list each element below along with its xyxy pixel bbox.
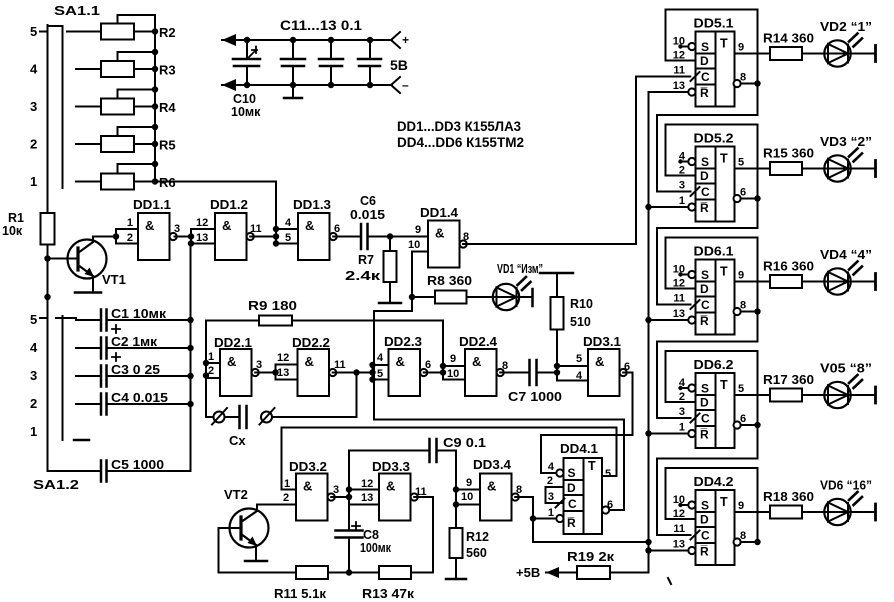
flip-flop DD4.2 body	[696, 490, 735, 565]
wire R19 to R bus	[610, 551, 649, 573]
gate DD2.3	[389, 349, 421, 396]
node DD2.1 pin1	[203, 360, 209, 366]
capacitor C10 (electrolytic)	[246, 40, 248, 59]
open contact position 1	[74, 439, 89, 442]
flip-flop DD5.2 body	[696, 147, 735, 222]
svg-text:T: T	[720, 495, 728, 509]
svg-text:11: 11	[250, 223, 262, 235]
node R7 top	[387, 233, 393, 239]
gate DD1.4	[428, 221, 460, 268]
LED VD6	[824, 499, 850, 525]
wire R8 to VD1	[467, 296, 493, 298]
DD2.3 input tie	[372, 365, 374, 380]
wire bus2 down to DD3.2	[282, 428, 297, 490]
capacitor C3	[100, 366, 103, 387]
svg-text:3: 3	[333, 484, 339, 496]
terminal Cx left	[214, 412, 225, 423]
wire DD3.1 out down to DD4.1 S	[541, 373, 633, 474]
gate DD3.1	[588, 349, 620, 396]
node DD5.1 Q-not	[754, 80, 760, 86]
terminal Cx right	[261, 412, 272, 423]
svg-text:&: &	[595, 354, 604, 369]
wire C2 to bus	[107, 347, 191, 349]
svg-text:T: T	[720, 152, 728, 166]
svg-text:D: D	[700, 169, 709, 183]
svg-text:R12: R12	[466, 530, 489, 544]
svg-text:VD1 “Изм”: VD1 “Изм”	[497, 262, 543, 276]
DD5.1 C slash	[691, 72, 700, 81]
svg-text:R17 360: R17 360	[763, 372, 814, 387]
ground of VT2	[245, 560, 267, 563]
resistor R3	[101, 61, 134, 77]
wire DD1.1 out to DD1.2 in	[175, 236, 192, 238]
svg-text:Сх: Сх	[229, 433, 246, 448]
DD4.2 R bubble	[688, 547, 695, 554]
DD1.3 input tie	[275, 229, 277, 244]
DD6.2 S stub	[680, 387, 689, 389]
svg-text:10мк: 10мк	[231, 105, 261, 119]
svg-text:3: 3	[679, 180, 685, 192]
DD6.2 R bubble	[688, 430, 695, 437]
wire C5 to bus	[107, 470, 191, 472]
svg-text:D: D	[700, 396, 709, 410]
wire contact to C2	[76, 347, 101, 349]
switch SA1.1 top bracket	[48, 25, 63, 27]
DD6.1 Q-not wire	[741, 311, 758, 313]
capacitor C11 with ground	[292, 40, 294, 59]
DD5.2 Q-not wire	[741, 198, 758, 200]
LED VD4	[824, 268, 850, 294]
DD5.2 S bubble	[688, 158, 695, 165]
svg-text:1: 1	[208, 351, 214, 363]
svg-text:12: 12	[277, 352, 289, 364]
node Cx riser	[353, 369, 359, 375]
DD2.2 input tie	[275, 365, 277, 380]
wire LED V05 to terminal	[851, 394, 875, 396]
wire R6 to bus	[134, 181, 155, 183]
capacitor C8	[336, 529, 363, 532]
resistor R6	[101, 174, 134, 190]
wire DD2.3 out to DD2.4	[424, 372, 443, 374]
wire Cx to DD2.2 output node	[272, 373, 357, 418]
node DD2.3 pin5	[369, 376, 375, 382]
resistor R4 trimmer tap	[118, 90, 156, 99]
wire Cx left	[206, 416, 214, 418]
terminal bar VD2	[874, 46, 877, 62]
node DD1.1 input	[113, 233, 119, 239]
node DD1.3 input upper	[273, 226, 279, 232]
DD5.1 S stub	[680, 46, 689, 48]
node C2 bus	[187, 345, 193, 351]
DD4.2 C slash	[691, 531, 700, 540]
node DD4.2 Q-not	[754, 539, 760, 545]
svg-text:VT2: VT2	[224, 487, 248, 502]
resistor R11	[296, 566, 328, 579]
svg-text:9: 9	[450, 353, 456, 365]
wire DD1.4 out to counter clock riser	[463, 243, 636, 245]
svg-text:R14 360: R14 360	[763, 31, 814, 46]
wire chain from previous stage to DD6.2 C input	[657, 312, 758, 419]
DD5.1 R bubble	[688, 88, 695, 95]
wire LED VD3 to terminal	[851, 168, 875, 170]
gate DD3.4	[480, 474, 512, 521]
resistor R8	[435, 291, 467, 304]
wire R12 to ground	[455, 558, 457, 578]
wire C1 to bus	[107, 319, 191, 321]
terminal bar VD1	[531, 289, 534, 306]
svg-text:D: D	[700, 54, 709, 68]
DD5.1 R wire from bus	[649, 91, 689, 93]
DD5.2 S stub	[680, 161, 689, 163]
svg-text:VD6 “16”: VD6 “16”	[820, 478, 872, 493]
node DD3.1 input top	[554, 363, 560, 369]
svg-text:11: 11	[673, 65, 685, 77]
svg-text:3: 3	[548, 491, 554, 503]
svg-text:8: 8	[516, 484, 522, 496]
svg-text:DD3.2: DD3.2	[289, 460, 327, 474]
svg-text:12: 12	[361, 478, 373, 490]
capacitor C13	[369, 40, 371, 59]
svg-text:510: 510	[570, 315, 591, 329]
svg-text:+5В: +5В	[516, 565, 540, 580]
svg-text:DD1.2: DD1.2	[210, 198, 248, 212]
wire chain from previous stage to DD6.1 C input	[657, 199, 758, 305]
svg-text:DD2.3: DD2.3	[384, 335, 422, 349]
VT2 base wire	[219, 528, 297, 573]
svg-text:4: 4	[30, 340, 38, 355]
svg-text:10: 10	[447, 368, 459, 380]
svg-text:5В: 5В	[390, 57, 408, 73]
resistor R6 trimmer tap	[118, 164, 156, 174]
svg-text:R16 360: R16 360	[763, 259, 814, 274]
wire contact to C3	[76, 375, 101, 377]
svg-text:T: T	[588, 459, 596, 473]
svg-text:R19 2к: R19 2к	[567, 549, 615, 564]
resistor R19	[577, 566, 610, 579]
svg-text:&: &	[145, 218, 154, 233]
svg-text:–: –	[402, 78, 409, 92]
svg-text:S: S	[701, 155, 709, 169]
svg-text:R3: R3	[159, 63, 176, 78]
svg-text:R̅: R̅	[700, 545, 709, 559]
svg-text:R10: R10	[570, 297, 593, 311]
DD5.1 S bubble	[688, 43, 695, 50]
resistor R14	[770, 47, 802, 60]
gate DD3.2	[296, 474, 328, 521]
DD3.1 input tie	[556, 366, 558, 381]
svg-text:2: 2	[30, 137, 37, 152]
arrow +5В	[546, 572, 577, 574]
svg-text:&: &	[396, 354, 405, 369]
node R bus DD5.2	[645, 204, 651, 210]
switch SA1.1 pole line A	[47, 25, 49, 213]
node DD1.3 input lower	[273, 240, 279, 246]
svg-text:C4 0.015: C4 0.015	[111, 391, 168, 405]
DD4.1 S bubble	[556, 469, 563, 476]
svg-text:11: 11	[673, 523, 685, 535]
ground of VT1	[75, 291, 101, 294]
LED VD2	[824, 40, 850, 66]
svg-text:3: 3	[679, 406, 685, 418]
transistor VT1	[68, 240, 107, 279]
wire clock riser DD1.4 to DD5.1 C	[636, 77, 690, 245]
svg-text:3: 3	[30, 368, 37, 383]
svg-text:S: S	[701, 499, 709, 513]
svg-text:1: 1	[679, 195, 685, 207]
svg-text:6: 6	[425, 359, 431, 371]
node R bus DD6.2	[645, 430, 651, 436]
node DD5.2 Q-not	[754, 195, 760, 201]
svg-text:4: 4	[30, 62, 38, 77]
wire contact 5 to R2	[76, 31, 101, 33]
DD4.2 Q output wire	[735, 511, 771, 513]
wire SA1.2 pole to C5	[48, 470, 102, 472]
DD1.1 input wires	[116, 228, 138, 230]
wire R-bus from DD3.4	[533, 519, 649, 543]
svg-text:6: 6	[624, 361, 630, 373]
DD4.1 Q wire	[602, 475, 617, 477]
node C4 bus	[187, 401, 193, 407]
resistor R4	[101, 99, 134, 115]
svg-text:&: &	[227, 354, 236, 369]
svg-text:R̅: R̅	[567, 516, 576, 530]
wire R14 to LED	[802, 53, 825, 55]
DD4.1 Q-not bubble	[602, 506, 609, 513]
svg-text:2: 2	[547, 475, 553, 487]
svg-text:R7: R7	[358, 253, 374, 267]
DD6.1 feedback loop Q-not to D	[666, 238, 758, 312]
arrow left top	[222, 34, 236, 46]
DD5.1 Q-not wire	[741, 83, 758, 85]
svg-text:R2: R2	[159, 25, 176, 40]
svg-text:4: 4	[285, 217, 292, 229]
arrow left bottom	[222, 79, 236, 91]
svg-text:T: T	[720, 378, 728, 392]
wire DD3.4 input to R12	[455, 505, 457, 529]
svg-text:10: 10	[673, 494, 685, 506]
svg-text:R8 360: R8 360	[427, 274, 472, 288]
svg-text:C: C	[568, 497, 577, 511]
DD4.2 S stub	[680, 504, 689, 506]
svg-text:VD3 “2”: VD3 “2”	[820, 134, 872, 149]
DD1.4 pin10 wire jog	[412, 252, 428, 312]
wire LED VD4 to terminal	[851, 281, 875, 283]
gate DD2.4	[465, 349, 497, 396]
flip-flop DD5.1 body	[696, 32, 735, 107]
wire C7 to DD3.1 input	[537, 372, 558, 374]
svg-text:9: 9	[466, 477, 472, 489]
svg-text:DD3.3: DD3.3	[372, 460, 410, 474]
gate DD3.3	[379, 474, 411, 521]
svg-text:SA1.2: SA1.2	[33, 477, 79, 492]
wire base node to VT1	[48, 258, 79, 260]
terminal - of 5V	[391, 77, 400, 93]
resistor R10	[556, 273, 558, 297]
capacitor C2	[100, 338, 103, 359]
svg-text:R̅: R̅	[700, 314, 709, 328]
svg-text:R̅: R̅	[700, 201, 709, 215]
wire R4 to bus	[134, 106, 155, 108]
resistor R5	[101, 136, 134, 152]
svg-text:R11 5.1к: R11 5.1к	[274, 586, 326, 601]
svg-text:C3 0 25: C3 0 25	[111, 363, 160, 377]
wire VD1 to terminal	[518, 296, 531, 298]
svg-text:10: 10	[461, 491, 473, 503]
DD4.2 feedback loop Q-not to D	[666, 468, 758, 542]
svg-text:&: &	[435, 226, 444, 241]
DD6.1 C slash	[691, 300, 700, 309]
svg-text:DD5.2: DD5.2	[694, 132, 734, 146]
switch SA1.2 pole line	[47, 297, 49, 471]
svg-text:3: 3	[30, 99, 37, 114]
svg-text:5: 5	[738, 383, 744, 395]
bus capacitors to DD1.2 input	[190, 244, 192, 472]
svg-text:2: 2	[208, 365, 214, 377]
svg-text:560: 560	[466, 546, 487, 560]
svg-text:4: 4	[679, 377, 686, 389]
svg-text:2.4к: 2.4к	[345, 269, 381, 283]
DD6.2 feedback loop Q-not to D	[666, 351, 758, 425]
wire R11 to R13	[328, 572, 379, 574]
node C3 bus	[187, 373, 193, 379]
wire R3 to bus	[134, 68, 155, 70]
wire C9 to DD3.4 input	[437, 451, 457, 505]
wire DD3.3 out to R13 riser	[414, 496, 433, 498]
svg-text:VT1: VT1	[102, 272, 126, 287]
svg-text:3: 3	[174, 223, 180, 235]
wire DD2.1 out to DD2.2	[255, 372, 275, 374]
svg-text:4: 4	[548, 461, 555, 473]
node base of VT1	[44, 255, 50, 261]
node SA1.2 top	[44, 294, 50, 300]
gate DD1.3	[298, 213, 330, 260]
wire C8 to R11 R13 node	[348, 538, 350, 573]
DD6.1 Q-not bubble	[734, 308, 741, 315]
node DD1.2 input lower	[188, 240, 194, 246]
svg-text:13: 13	[196, 232, 208, 244]
capacitor C1	[100, 310, 103, 331]
svg-text:&: &	[487, 479, 496, 494]
svg-text:13: 13	[673, 539, 685, 551]
DD3.3 input tie	[348, 490, 350, 505]
resistor R18	[770, 506, 802, 519]
capacitor Cx	[238, 406, 241, 428]
wire riser to C9 from DD3.3 input	[349, 451, 430, 490]
svg-text:S: S	[701, 40, 709, 54]
wire C4 to bus	[107, 403, 191, 405]
node DD3.3 input lower	[346, 494, 352, 500]
node R bus DD6.1	[645, 317, 651, 323]
svg-text:DD1...DD3 К155ЛА3: DD1...DD3 К155ЛА3	[397, 119, 521, 134]
wire R9 line left	[206, 321, 259, 418]
gate DD2.1	[220, 349, 252, 396]
svg-text:D: D	[700, 513, 709, 527]
svg-text:&: &	[305, 354, 314, 369]
svg-text:1: 1	[30, 424, 37, 439]
node DD6.2 Q-not	[754, 422, 760, 428]
capacitor C6	[360, 224, 363, 249]
svg-text:5: 5	[738, 157, 744, 169]
svg-text:10: 10	[408, 239, 420, 251]
plus mark of C1	[112, 325, 120, 333]
svg-text:DD4...DD6 К155ТМ2: DD4...DD6 К155ТМ2	[397, 135, 524, 150]
DD6.1 Q output wire	[735, 281, 771, 283]
plus mark of C8	[352, 522, 360, 530]
DD5.1 Q-not bubble	[734, 80, 741, 87]
resistor R13	[379, 566, 411, 579]
capacitor C4	[100, 394, 103, 415]
svg-text:C: C	[701, 529, 710, 543]
DD6.2 S bubble	[688, 384, 695, 391]
node DD2.3 input	[369, 369, 375, 375]
svg-text:T: T	[720, 265, 728, 279]
svg-text:DD3.1: DD3.1	[583, 335, 621, 349]
gate DD1.1	[138, 213, 170, 260]
wire R2 to bus	[134, 31, 155, 33]
svg-text:DD5.1: DD5.1	[694, 17, 734, 31]
svg-text:C: C	[701, 412, 710, 426]
node DD3.1 input	[554, 369, 560, 375]
svg-text:C11...13 0.1: C11...13 0.1	[280, 18, 363, 33]
wire contact 1 to R6	[76, 181, 101, 183]
svg-text:C1 10мк: C1 10мк	[111, 307, 167, 321]
wire node R6 to DD1.3 input (long)	[155, 182, 276, 230]
svg-text:12: 12	[196, 217, 208, 229]
svg-text:DD4.2: DD4.2	[694, 475, 734, 489]
svg-text:C5 1000: C5 1000	[111, 458, 164, 472]
svg-text:DD1.1: DD1.1	[133, 198, 171, 212]
resistor R10 pull-up bar	[540, 272, 573, 275]
svg-text:C7 1000: C7 1000	[508, 389, 562, 404]
svg-text:10: 10	[673, 36, 685, 48]
svg-text:DD2.4: DD2.4	[459, 335, 497, 349]
svg-text:1: 1	[284, 478, 290, 490]
wire R5 to bus	[134, 143, 155, 145]
node DD1.2 input upper	[188, 233, 194, 239]
LED VD1	[493, 284, 519, 310]
wire contact to C4	[76, 403, 101, 405]
svg-text:R18 360: R18 360	[763, 489, 814, 504]
flip-flop DD6.1 body	[696, 260, 735, 335]
VT2 emitter wire	[255, 545, 257, 560]
svg-text:4: 4	[679, 151, 686, 163]
svg-text:10к: 10к	[2, 224, 23, 238]
svg-text:D: D	[700, 282, 709, 296]
DD6.2 R wire from bus	[649, 433, 689, 435]
wire bus2 DD4.1 Q to DD3.2 pin1	[282, 428, 617, 477]
svg-text:1: 1	[679, 422, 685, 434]
DD5.1 Q output wire	[735, 53, 771, 55]
svg-text:D: D	[567, 481, 576, 495]
node DD4.1 R wire	[530, 515, 536, 521]
svg-text:10: 10	[673, 264, 685, 276]
DD5.2 R wire from bus	[649, 206, 689, 208]
VT1 emitter wire	[92, 276, 94, 292]
node DD3.4 pin10	[453, 501, 459, 507]
capacitor C5	[100, 461, 103, 482]
DD6.1 S stub	[680, 274, 689, 276]
DD6.2 Q-not wire	[741, 424, 758, 426]
DD5.1 feedback loop Q-not to D	[666, 10, 758, 84]
wire contact 3 to R4	[76, 106, 101, 108]
DD4.1 D-C tie	[546, 487, 564, 503]
svg-text:C: C	[701, 70, 710, 84]
DD3.4 input wires	[456, 489, 480, 491]
svg-text:2: 2	[30, 396, 37, 411]
svg-text:5: 5	[30, 24, 37, 39]
svg-text:DD1.4: DD1.4	[420, 206, 458, 220]
svg-text:DD2.2: DD2.2	[292, 336, 330, 350]
